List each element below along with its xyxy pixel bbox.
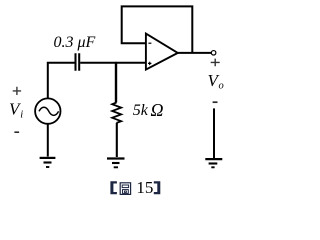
svg-text:15: 15: [136, 178, 153, 197]
sine wave: [39, 107, 59, 115]
wire resistor to ground: [116, 123, 118, 157]
caption left bracket: [110, 181, 117, 194]
label + (Vo): [211, 59, 220, 67]
source V1 circle: [35, 98, 60, 123]
caption glyph tu (CJK): [120, 183, 130, 195]
wire output return to ground: [213, 108, 215, 158]
ground (source): [40, 157, 56, 159]
caption right bracket: [154, 181, 161, 194]
op-amp plus pin mark: [148, 62, 151, 65]
svg-text:0.3 μF: 0.3 μF: [54, 34, 96, 51]
svg-text:Ω: Ω: [151, 100, 164, 120]
label - (Vo): [213, 101, 218, 103]
resistor R1 zigzag: [112, 103, 121, 123]
ground (output): [205, 158, 222, 160]
feedback wire: [122, 6, 193, 53]
svg-text:i: i: [20, 110, 23, 121]
wire from source top up and right to capacitor: [48, 63, 75, 99]
capacitor C1 plates: [76, 53, 80, 70]
wire capacitor to op-amp + input: [80, 62, 146, 64]
op-amp U1 triangle: [146, 34, 178, 70]
wire source bottom to ground: [47, 124, 49, 157]
op-amp minus pin mark: [148, 42, 151, 44]
label - (Vi): [14, 131, 19, 133]
ground (resistor): [107, 157, 125, 159]
wire junction down to resistor: [115, 62, 117, 103]
svg-text:5k: 5k: [133, 102, 149, 119]
svg-text:o: o: [219, 80, 224, 91]
label + (Vi): [13, 87, 21, 95]
output wire: [178, 52, 212, 54]
output terminal: [211, 51, 216, 56]
